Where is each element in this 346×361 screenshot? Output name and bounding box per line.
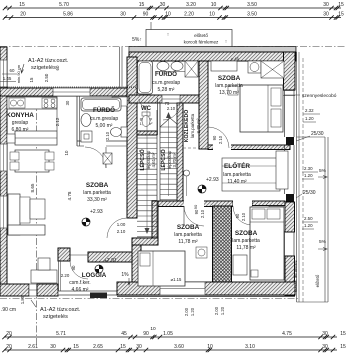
svg-text:2.00: 2.00 <box>184 307 189 316</box>
right wall room2 upper part <box>285 202 295 232</box>
svg-text:15: 15 <box>120 344 126 350</box>
svg-text:2.10: 2.10 <box>200 209 205 218</box>
door elotér to szoba13.70 <box>208 127 229 148</box>
nightstand room1 <box>196 247 207 258</box>
svg-text:5%: 5% <box>319 168 327 174</box>
bathroom A1 walls <box>76 96 78 146</box>
svg-text:25/30: 25/30 <box>303 190 316 196</box>
svg-text:5.86: 5.86 <box>63 12 73 18</box>
svg-text:lam.parketta: lam.parketta <box>223 172 251 178</box>
svg-text:↑: ↑ <box>167 32 170 38</box>
svg-text:45: 45 <box>121 331 127 337</box>
kitchen stove <box>42 98 57 108</box>
svg-text:20: 20 <box>20 12 26 18</box>
bathroom A1 shelf <box>112 97 127 106</box>
chair room2 <box>258 213 268 222</box>
bathtub A2 <box>138 61 153 94</box>
svg-text:1.20: 1.20 <box>220 306 225 315</box>
door gap elotér-room2 <box>233 201 252 208</box>
svg-text:15: 15 <box>139 2 145 8</box>
svg-text:előtető: előtető <box>194 33 208 38</box>
kitchen island <box>15 131 57 145</box>
room1 top wall <box>152 201 233 207</box>
svg-text:2.20: 2.20 <box>184 12 194 18</box>
sofa szoba33.30 <box>8 194 20 235</box>
bed szoba13.70 <box>240 85 283 132</box>
svg-text:SZOBA: SZOBA <box>86 182 109 189</box>
loggia top wall <box>88 252 132 262</box>
kitchen top exterior wall <box>0 88 137 96</box>
svg-text:1%: 1% <box>121 272 129 278</box>
svg-text:SZOBA: SZOBA <box>235 230 258 237</box>
loggia door gap <box>70 254 88 256</box>
door szoba33.30 to loggia <box>70 261 88 279</box>
svg-text:3,70 m²: 3,70 m² <box>196 118 201 133</box>
window right wall room2 <box>284 232 286 256</box>
canopy leader line <box>150 22 152 30</box>
right canopy (előtető) outline <box>296 52 298 302</box>
svg-text:FÜRDŐ: FÜRDŐ <box>155 71 177 78</box>
svg-text:1.85: 1.85 <box>20 295 25 304</box>
svg-text:WC: WC <box>141 106 152 112</box>
wall between corridor and szoba 13.70 <box>199 61 208 149</box>
svg-text:3,70 m²: 3,70 m² <box>172 152 177 167</box>
insulation comb top wall <box>129 47 296 53</box>
loggia right wall <box>132 238 141 291</box>
wall below bathroom2/WC <box>129 95 208 103</box>
bottom wall lower edge <box>117 295 295 297</box>
svg-text:1.20: 1.20 <box>305 116 314 121</box>
svg-text:LÉPCSŐ: LÉPCSŐ <box>159 149 167 170</box>
level marker +2.93 <box>198 185 206 193</box>
stair stringer lines <box>156 110 158 238</box>
svg-text:+2.93: +2.93 <box>90 209 103 215</box>
svg-text:1.00: 1.00 <box>117 222 126 227</box>
nightstand szoba13.70 <box>228 86 238 95</box>
svg-text:min.90 cm: min.90 cm <box>16 64 21 83</box>
svg-text:szennyeslecobó: szennyeslecobó <box>302 93 337 99</box>
coffee table szoba33.30 <box>30 199 45 219</box>
window left wall upper <box>0 144 7 171</box>
svg-text:2.12: 2.12 <box>55 117 60 126</box>
svg-text:SZOBA: SZOBA <box>218 75 241 82</box>
loggia left edge lines <box>58 261 60 291</box>
svg-text:11,78 m²: 11,78 m² <box>236 245 256 251</box>
svg-text:cs.m.greslap: cs.m.greslap <box>90 116 119 122</box>
svg-text:8.65: 8.65 <box>30 183 35 192</box>
kitchen counter band <box>7 97 57 109</box>
svg-text:ELŐTÉR: ELŐTÉR <box>224 161 250 170</box>
svg-text:30: 30 <box>136 344 142 350</box>
column 25/30 lower <box>286 194 294 202</box>
svg-text:90: 90 <box>71 265 76 270</box>
upper exterior top wall <box>129 52 296 61</box>
room2 top wall <box>252 201 285 206</box>
svg-text:1.20: 1.20 <box>304 173 313 178</box>
dining table <box>15 150 49 172</box>
canopy (előtető) outline top <box>146 30 232 48</box>
svg-text:15: 15 <box>340 331 346 337</box>
stair flight 1 treads <box>137 138 157 237</box>
shelf elotér right <box>276 151 288 189</box>
bottom dimension row 1 <box>4 336 337 338</box>
corridor-elotér dashed boundary <box>183 147 200 149</box>
svg-text:2.20: 2.20 <box>61 273 70 278</box>
right wall elotér window zone <box>284 145 286 194</box>
svg-text:90: 90 <box>212 135 217 140</box>
WC bottom wall <box>137 131 157 135</box>
right wall room2 lower part <box>285 256 295 296</box>
wardrobe wall between room1 and room2 <box>213 206 232 284</box>
svg-text:lam.parketta: lam.parketta <box>83 190 111 196</box>
wardrobe elotér <box>222 158 280 191</box>
svg-text:lam.parketta: lam.parketta <box>215 83 243 89</box>
stair wall vertical <box>127 57 137 218</box>
svg-text:4,66 m²: 4,66 m² <box>72 287 89 293</box>
svg-text:3.20: 3.20 <box>186 2 196 8</box>
svg-text:KÖZLEKEDŐ: KÖZLEKEDŐ <box>183 110 190 143</box>
svg-text:előtető: előtető <box>315 274 320 287</box>
svg-text:5.70: 5.70 <box>59 2 69 8</box>
svg-text:greslap: greslap <box>12 120 29 126</box>
svg-text:10: 10 <box>207 344 213 350</box>
washing machine A1 <box>81 131 92 142</box>
svg-text:30: 30 <box>322 331 328 337</box>
svg-text:30: 30 <box>323 12 329 18</box>
small window bottom west <box>29 284 37 296</box>
terrace edge lines above kitchen <box>119 47 121 88</box>
window left wall lower <box>0 196 7 228</box>
svg-text:2.10: 2.10 <box>105 131 110 140</box>
svg-text:20: 20 <box>6 344 12 350</box>
svg-text:lam.parketta: lam.parketta <box>232 238 260 244</box>
WC A2 room <box>157 98 159 135</box>
svg-text:1.45: 1.45 <box>3 76 12 81</box>
door gap elotér-szoba13.70 <box>213 145 231 151</box>
svg-text:30: 30 <box>120 12 126 18</box>
svg-text:30: 30 <box>322 344 328 350</box>
window bottom room1 <box>160 282 205 295</box>
door elotér to room2 <box>233 206 252 225</box>
svg-text:3.10: 3.10 <box>245 344 255 350</box>
window left wall top <box>0 60 7 87</box>
svg-text:90: 90 <box>193 204 198 209</box>
wall jog at kitchen/stair corner <box>127 82 137 96</box>
svg-text:cs.m.greslap: cs.m.greslap <box>152 80 181 86</box>
svg-text:szigetelés: szigetelés <box>31 65 56 71</box>
svg-text:4,61 m²: 4,61 m² <box>151 152 156 167</box>
svg-text:15: 15 <box>338 2 344 8</box>
svg-text:3.50: 3.50 <box>247 12 257 18</box>
svg-text:4.75: 4.75 <box>282 331 292 337</box>
svg-text:↑: ↑ <box>225 39 228 45</box>
svg-text:+2.93: +2.93 <box>206 177 219 183</box>
svg-text:LOGGIA: LOGGIA <box>82 272 107 279</box>
svg-text:10: 10 <box>209 12 215 18</box>
svg-text:15: 15 <box>19 2 25 8</box>
svg-text:25/30: 25/30 <box>311 131 324 137</box>
section line A-A vertical <box>36 88 38 344</box>
window kitchen top wall <box>53 88 90 96</box>
svg-text:15: 15 <box>338 12 344 18</box>
dining chairs <box>10 152 19 160</box>
svg-text:5%: 5% <box>319 239 327 245</box>
stair walk start circle <box>184 170 190 176</box>
svg-text:1.20: 1.20 <box>304 223 313 228</box>
room1 nw horizontal wall <box>132 238 158 245</box>
svg-text:2.50: 2.50 <box>304 216 313 221</box>
level marker +2.91 <box>95 265 103 273</box>
corridor right wall <box>177 103 183 201</box>
svg-text:lam.parketta: lam.parketta <box>174 232 202 238</box>
svg-text:10: 10 <box>211 2 217 8</box>
svg-text:⌀1.15: ⌀1.15 <box>171 277 182 282</box>
svg-text:90: 90 <box>143 12 149 18</box>
svg-text:5%↑: 5%↑ <box>132 37 142 43</box>
svg-text:SZOBA: SZOBA <box>177 224 200 231</box>
svg-text:LÉPCSŐ: LÉPCSŐ <box>138 149 146 170</box>
svg-text:30: 30 <box>50 344 56 350</box>
svg-text:KONYHA: KONYHA <box>6 112 34 119</box>
site boundary dash-dot line top <box>0 46 346 48</box>
svg-text:60: 60 <box>55 65 60 70</box>
svg-text:5.71: 5.71 <box>56 331 66 337</box>
upper right exterior wall <box>284 52 296 90</box>
svg-text:2.10: 2.10 <box>218 135 223 144</box>
svg-text:90: 90 <box>143 331 149 337</box>
svg-text:13,70 m²: 13,70 m² <box>219 90 239 96</box>
svg-text:lam.parketta: lam.parketta <box>190 113 195 138</box>
svg-text:3.50: 3.50 <box>247 2 257 8</box>
svg-text:2.00: 2.00 <box>214 306 219 315</box>
desk room2 <box>269 206 285 231</box>
svg-text:A1-A2 tüzv.oszt.: A1-A2 tüzv.oszt. <box>40 307 81 313</box>
svg-text:33,30 m²: 33,30 m² <box>87 197 107 203</box>
site boundary dash-dot line bottom <box>0 298 300 300</box>
room1 nw vertical wall <box>152 201 158 245</box>
bed room2 <box>250 207 284 280</box>
bed room1 <box>138 251 185 286</box>
svg-text:90: 90 <box>235 213 240 218</box>
svg-text:11,40 m²: 11,40 m² <box>227 179 247 185</box>
svg-text:korcolt fémlemez: korcolt fémlemez <box>184 40 219 45</box>
stair flight 2 break mark <box>160 118 177 127</box>
svg-text:3.60: 3.60 <box>174 344 184 350</box>
svg-text:5,28 m²: 5,28 m² <box>158 87 175 93</box>
svg-text:1.20: 1.20 <box>190 307 195 316</box>
insulation comb kitchen wall top <box>0 86 137 88</box>
door arc WC corridor <box>163 103 180 120</box>
kitchen nook edge line <box>56 109 58 131</box>
kitchen sink <box>9 98 25 108</box>
svg-text:1.05: 1.05 <box>163 331 173 337</box>
shower box A2 <box>185 61 198 77</box>
svg-text:2.30: 2.30 <box>304 166 313 171</box>
svg-text:30: 30 <box>323 2 329 8</box>
toilet A2 <box>142 112 150 116</box>
door opening corridor <box>162 95 180 103</box>
svg-text:60: 60 <box>10 68 15 73</box>
svg-text:2.32: 2.32 <box>305 108 314 113</box>
svg-text:10: 10 <box>64 150 69 155</box>
toilet A1 <box>121 127 127 137</box>
svg-text:20: 20 <box>6 331 12 337</box>
svg-text:2.65: 2.65 <box>93 344 103 350</box>
loggia pillar <box>58 248 70 261</box>
svg-text:15: 15 <box>29 77 34 82</box>
svg-text:2.10: 2.10 <box>117 229 126 234</box>
svg-text:csm.f.ker.: csm.f.ker. <box>69 280 90 286</box>
svg-text:5,00 m²: 5,00 m² <box>96 123 113 129</box>
door arc WC <box>139 99 147 107</box>
door arc bathroom A1 <box>85 147 106 168</box>
level marker +2.93 <box>82 218 90 226</box>
left exterior wall <box>0 47 7 286</box>
svg-text:p 45: p 45 <box>231 57 238 61</box>
bottom wall segment 2 <box>37 284 58 296</box>
wall between szoba 13.70 and elotér <box>208 145 290 150</box>
bathtub A1 <box>81 98 121 111</box>
svg-text:2.10: 2.10 <box>167 106 176 111</box>
svg-text:11,78 m²: 11,78 m² <box>178 239 198 245</box>
stair walk line flight1 <box>146 108 148 233</box>
svg-text:2.61: 2.61 <box>28 344 38 350</box>
desk room2 left <box>233 255 247 275</box>
stair walk line flight2 <box>168 113 170 196</box>
svg-text:+2.91: +2.91 <box>104 258 117 264</box>
svg-text:15: 15 <box>340 344 346 350</box>
tv cabinet szoba33.30 <box>31 270 57 283</box>
svg-text:10: 10 <box>165 12 171 18</box>
twin washbasins A2 <box>157 62 169 71</box>
bottom exterior wall east part <box>117 282 295 295</box>
svg-text:A1-A2 tüzv.oszt.: A1-A2 tüzv.oszt. <box>28 58 69 64</box>
wardrobe szoba13.70 <box>248 61 261 73</box>
svg-text:2.10: 2.10 <box>241 212 246 221</box>
svg-text:4.78: 4.78 <box>67 191 72 200</box>
svg-text:2.50: 2.50 <box>44 73 49 82</box>
svg-text:30: 30 <box>160 2 166 8</box>
svg-text:15: 15 <box>73 344 79 350</box>
svg-text:FÜRDŐ: FÜRDŐ <box>93 107 115 114</box>
bottom dimension row 2 <box>4 349 337 351</box>
door gap elotér-room1 <box>184 201 204 208</box>
column 25/30 upper <box>286 137 294 145</box>
door stairhall to szoba33.30 <box>107 218 127 238</box>
bottom wall west segment <box>0 284 29 296</box>
right wall szoba13.70 window zone <box>284 90 286 137</box>
stair flight 2 treads <box>160 127 177 200</box>
svg-text:30: 30 <box>65 100 70 105</box>
svg-text:6,80 m²: 6,80 m² <box>12 127 29 133</box>
door elotér to room1 <box>184 206 204 226</box>
svg-text:.90 cm: .90 cm <box>1 307 16 313</box>
svg-text:szigetelés: szigetelés <box>43 314 68 320</box>
washbasin A1 <box>81 114 91 127</box>
svg-text:korcolt fémlemez: korcolt fémlemez <box>293 260 298 292</box>
loggia railing <box>58 291 117 295</box>
top dimension row 1 <box>4 7 341 9</box>
flue block szoba33.30 <box>103 153 112 164</box>
svg-text:10: 10 <box>150 326 156 332</box>
top dimension row 2 <box>4 17 341 19</box>
